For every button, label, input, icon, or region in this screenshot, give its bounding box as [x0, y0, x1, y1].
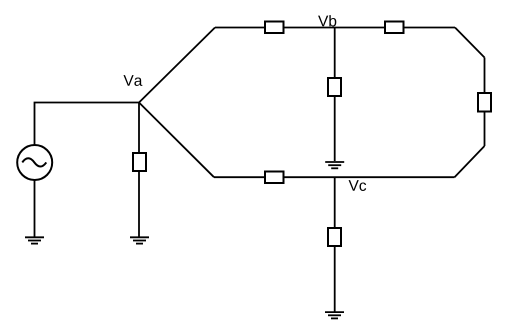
- resistor R2 (top rail left): [265, 22, 284, 34]
- wire bottom rail to Va diagonal: [139, 103, 214, 178]
- resistor R7 (Vc branch): [328, 228, 341, 246]
- ground (below Vc branch): [325, 312, 344, 318]
- wire top rail: [215, 27, 455, 29]
- node Vc label: [349, 180, 367, 191]
- resistor R6 (bottom rail): [265, 172, 284, 184]
- resistor R1 (Va branch): [133, 153, 146, 171]
- wire source bottom to ground: [34, 180, 36, 237]
- wire Va up-diagonal to top rail: [139, 28, 215, 103]
- node Va label: [123, 75, 142, 86]
- ground (below source): [25, 237, 44, 243]
- resistor R4 (Vb branch): [328, 78, 341, 96]
- resistor R3 (top rail right): [385, 22, 404, 34]
- wire top rail to right rail diagonal: [455, 28, 485, 58]
- voltage source V1: [17, 145, 52, 180]
- ground (below Va branch): [130, 237, 149, 243]
- wire bottom rail: [214, 176, 455, 178]
- wire Va branch down to ground: [138, 103, 140, 238]
- wire right rail: [484, 58, 486, 147]
- wire Vc branch down to ground: [334, 177, 336, 312]
- resistor R5 (right rail): [478, 93, 491, 112]
- ground (below Vb branch): [325, 162, 344, 168]
- node Vb label: [318, 15, 336, 26]
- wire source top to node Va: [35, 103, 140, 146]
- wire Vb branch down to ground: [334, 28, 336, 162]
- wire right rail to bottom rail diagonal: [455, 146, 485, 177]
